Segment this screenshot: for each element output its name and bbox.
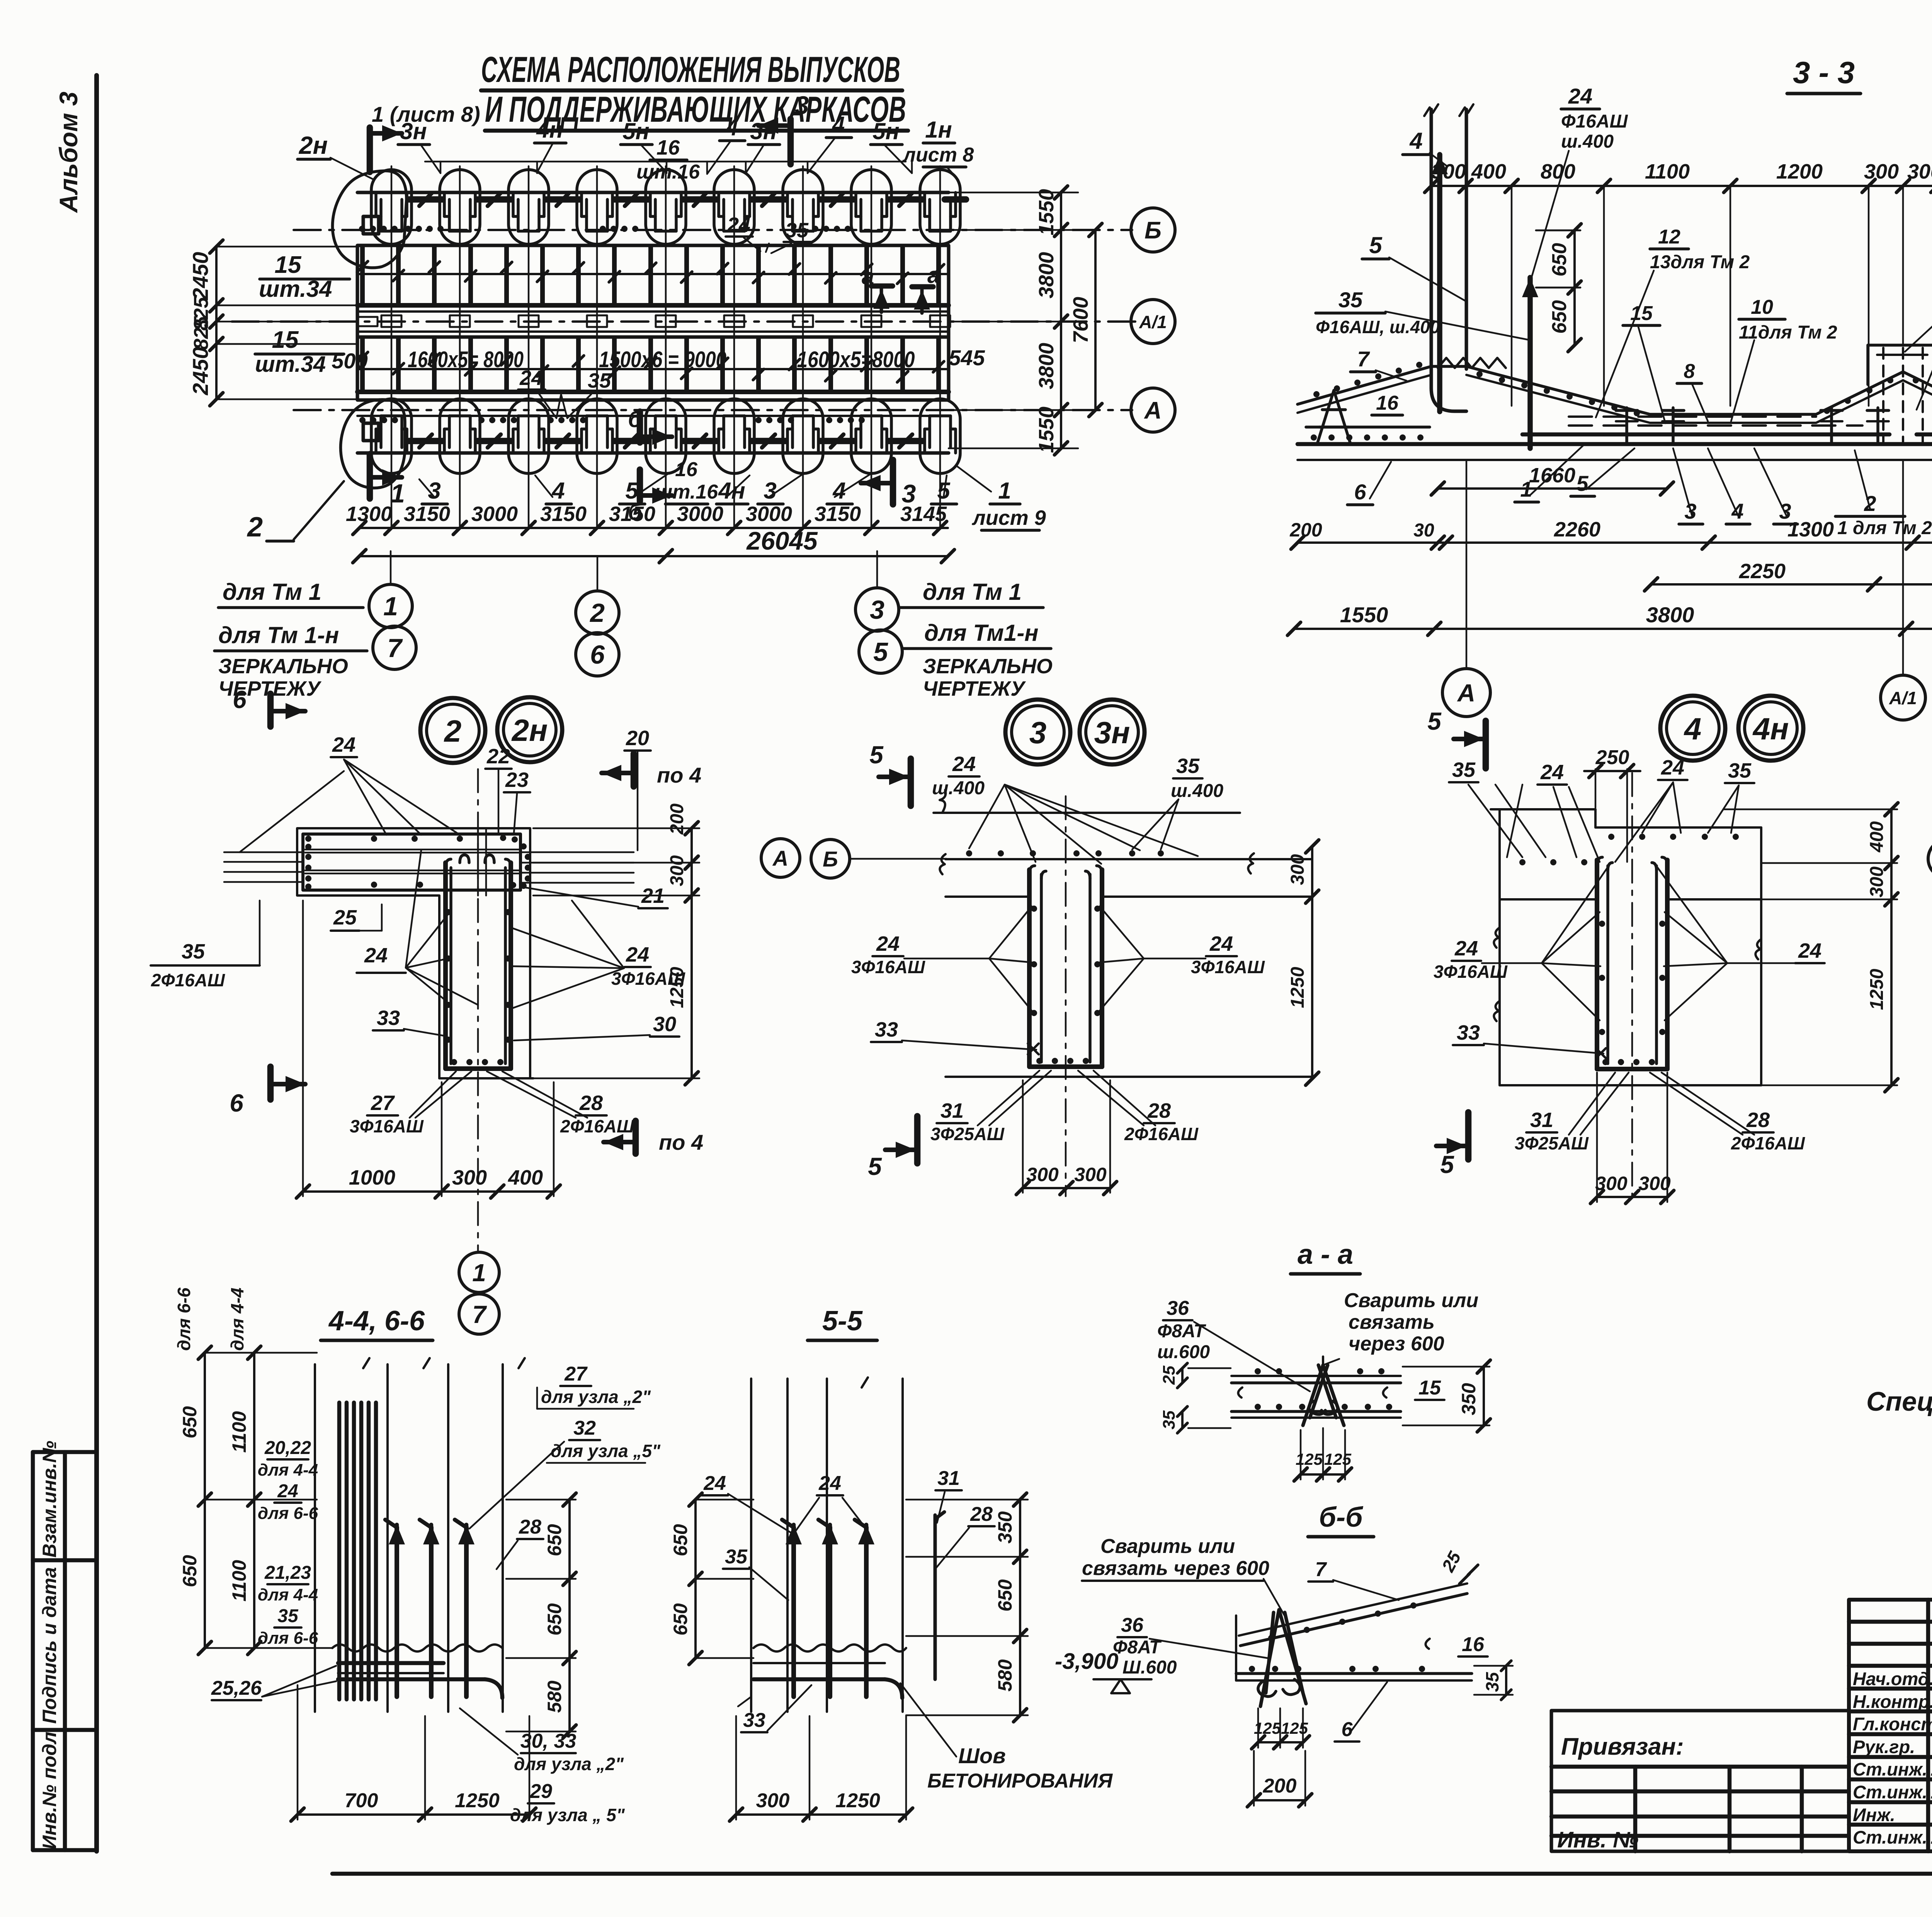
svg-text:Ф16АШ: Ф16АШ	[1561, 111, 1628, 132]
svg-text:250: 250	[1595, 746, 1629, 769]
svg-text:15: 15	[275, 252, 302, 278]
plan: lower band rebar verticals	[360, 338, 365, 391]
svg-text:3150: 3150	[540, 502, 587, 526]
svg-text:Б: Б	[1145, 217, 1162, 244]
svg-text:6: 6	[590, 640, 605, 669]
svg-text:24: 24	[1661, 756, 1684, 779]
plan: top capsules	[371, 170, 412, 244]
svg-text:ЧЕРТЕЖУ: ЧЕРТЕЖУ	[923, 677, 1026, 700]
section 3-3: rebar dots on top surface	[1313, 391, 1320, 397]
svg-text:31: 31	[1530, 1108, 1553, 1132]
svg-text:для Тм 1: для Тм 1	[923, 579, 1022, 605]
svg-text:28: 28	[970, 1503, 993, 1525]
svg-text:8: 8	[1684, 360, 1695, 383]
svg-text:35: 35	[1482, 1672, 1502, 1692]
svg-text:1600х5= 8000: 1600х5= 8000	[408, 347, 524, 372]
svg-text:4: 4	[551, 478, 565, 504]
svg-text:31: 31	[940, 1099, 964, 1122]
svg-text:3Ф16АШ: 3Ф16АШ	[1434, 962, 1508, 982]
svg-text:5: 5	[1369, 232, 1383, 258]
section 4: title circles	[1660, 696, 1725, 761]
svg-text:а: а	[862, 264, 874, 289]
section 2: title circles	[420, 698, 485, 763]
section 4: concrete outline	[1491, 808, 1595, 810]
svg-text:5-5: 5-5	[822, 1306, 863, 1336]
svg-text:3: 3	[795, 91, 809, 119]
svg-text:3000: 3000	[471, 502, 518, 526]
svg-text:для 4-4: для 4-4	[227, 1288, 247, 1351]
svg-text:1: 1	[998, 478, 1011, 504]
svg-text:3150: 3150	[815, 502, 861, 526]
svg-text:3Ф16АШ: 3Ф16АШ	[611, 969, 685, 989]
svg-text:6: 6	[230, 1089, 243, 1117]
svg-text:Ст.инж.: Ст.инж.	[1853, 1827, 1927, 1847]
svg-text:20: 20	[626, 727, 649, 750]
svg-text:16: 16	[1462, 1633, 1485, 1656]
svg-text:350: 350	[994, 1511, 1016, 1544]
detail bb: 125 dims	[1258, 1741, 1303, 1743]
svg-text:35: 35	[1160, 1410, 1179, 1429]
section 3-3: lower dim rows	[1438, 487, 1667, 490]
section 3-3: axis drop lines	[1466, 460, 1468, 667]
svg-text:35: 35	[785, 219, 809, 242]
svg-text:300: 300	[1864, 160, 1899, 183]
svg-text:3150: 3150	[404, 502, 450, 526]
svg-text:шт.16: шт.16	[655, 481, 718, 503]
svg-text:3 - 3: 3 - 3	[1793, 55, 1855, 90]
svg-text:7: 7	[1357, 347, 1370, 371]
section 2: flange cage	[303, 834, 520, 890]
section 2: web cage	[443, 863, 448, 1069]
svg-text:16: 16	[1376, 392, 1399, 414]
svg-text:22: 22	[486, 745, 510, 768]
svg-text:шт.16: шт.16	[636, 161, 700, 183]
svg-text:6: 6	[233, 686, 247, 713]
plan: left dim chain	[216, 246, 357, 248]
svg-text:ш.400: ш.400	[932, 778, 985, 798]
svg-text:для 6-6: для 6-6	[258, 1504, 318, 1523]
section 3-3: 650 dims left	[1573, 230, 1576, 345]
svg-text:6: 6	[1354, 480, 1366, 504]
svg-text:7600: 7600	[1069, 297, 1092, 343]
section 4: 250 dim	[1584, 770, 1640, 772]
svg-text:24: 24	[1454, 937, 1478, 960]
svg-text:ш.600: ш.600	[1157, 1342, 1210, 1362]
svg-text:Инв.№ подл.: Инв.№ подл.	[39, 1726, 60, 1849]
svg-text:2250: 2250	[1739, 560, 1786, 583]
svg-text:1250: 1250	[1287, 967, 1308, 1008]
section 3: 5 flags	[908, 759, 914, 806]
plan: axis circles	[1131, 208, 1175, 252]
section 2: flange dots right cluster	[500, 835, 506, 841]
plan: top strip channels	[374, 192, 378, 216]
svg-text:15: 15	[272, 327, 299, 353]
detail aa: left small dims	[1181, 1368, 1184, 1383]
svg-text:ЗЕРКАЛЬНО: ЗЕРКАЛЬНО	[923, 655, 1053, 678]
svg-text:Инж.: Инж.	[1853, 1805, 1895, 1825]
detail aa: A-frame tie	[1303, 1365, 1344, 1425]
svg-text:3: 3	[1029, 715, 1047, 750]
section 44-66: hooked bars 24	[395, 1527, 399, 1697]
titleblock: attach table	[1551, 1711, 1849, 1851]
plan: bottom strip channels	[374, 429, 378, 453]
svg-text:33: 33	[875, 1018, 898, 1041]
svg-text:2450: 2450	[188, 252, 213, 301]
svg-text:3800: 3800	[1035, 343, 1058, 389]
section 55: verticals	[750, 1379, 752, 1712]
svg-text:24: 24	[1568, 84, 1592, 108]
svg-text:35: 35	[1452, 758, 1476, 781]
svg-text:650: 650	[1548, 300, 1571, 334]
svg-text:35: 35	[1176, 754, 1200, 778]
svg-text:Спецификацию смотрите на лист: Спецификацию смотрите на листах 19,22.	[1866, 1386, 1932, 1416]
svg-text:3800: 3800	[1035, 252, 1058, 298]
plan: band lines	[357, 273, 949, 275]
section 44-66: bottom dim	[298, 1813, 529, 1816]
svg-text:для 6-6: для 6-6	[258, 1629, 318, 1648]
svg-text:300: 300	[1431, 160, 1466, 183]
svg-text:125: 125	[1296, 1450, 1323, 1468]
section 3-3: bottom bars left span	[1522, 432, 1889, 437]
section 3: slab lines	[934, 812, 1240, 814]
bottom sheet edge line	[332, 1872, 1932, 1876]
section 55: left dims	[694, 1500, 697, 1658]
svg-text:800: 800	[1541, 160, 1575, 183]
svg-text:650: 650	[544, 1603, 565, 1636]
svg-text:35: 35	[277, 1606, 299, 1626]
svg-text:2Ф16АШ: 2Ф16АШ	[1731, 1133, 1805, 1153]
svg-text:1550: 1550	[1340, 603, 1388, 627]
svg-text:24: 24	[332, 733, 355, 756]
svg-text:а - а: а - а	[1298, 1239, 1353, 1270]
svg-text:2Ф16АШ: 2Ф16АШ	[1124, 1124, 1199, 1144]
svg-text:30: 30	[1413, 520, 1434, 541]
svg-text:25: 25	[1160, 1365, 1179, 1385]
svg-text:3Ф16АШ: 3Ф16АШ	[851, 957, 925, 977]
section 55: hooked bars 24	[791, 1527, 796, 1697]
svg-text:для 4-4: для 4-4	[258, 1585, 318, 1604]
section 3-3: stirrup groups	[1625, 408, 1628, 443]
svg-text:-3,900: -3,900	[1055, 1649, 1118, 1674]
svg-text:4: 4	[1684, 712, 1702, 746]
svg-text:Подпись и дата: Подпись и дата	[39, 1567, 60, 1724]
svg-text:350: 350	[1458, 1383, 1480, 1415]
svg-text:33: 33	[1457, 1021, 1480, 1044]
svg-text:24: 24	[876, 932, 900, 955]
svg-text:400: 400	[508, 1166, 543, 1189]
svg-text:2450: 2450	[188, 347, 213, 396]
svg-text:3Ф16АШ: 3Ф16АШ	[350, 1116, 424, 1136]
svg-text:2260: 2260	[1554, 518, 1600, 541]
svg-text:24: 24	[1798, 939, 1821, 962]
svg-text:27: 27	[564, 1363, 588, 1385]
plan: axis A/1 centerline	[232, 320, 1136, 323]
svg-text:лист 9: лист 9	[971, 506, 1046, 529]
svg-text:24: 24	[277, 1481, 298, 1502]
svg-text:24: 24	[1209, 932, 1233, 955]
svg-text:А: А	[1144, 397, 1162, 424]
section 3: web axis	[1065, 796, 1067, 1196]
svg-text:3н: 3н	[1094, 715, 1130, 750]
section 3-3: slab bottom line	[1298, 442, 1932, 446]
svg-text:Альбом 3: Альбом 3	[54, 92, 83, 213]
svg-text:580: 580	[544, 1680, 565, 1713]
svg-text:30: 30	[653, 1013, 676, 1036]
svg-text:Гл.констр.: Гл.констр.	[1853, 1714, 1932, 1734]
section 3: dots	[966, 850, 972, 856]
section 55: wavy joint	[753, 1645, 906, 1651]
sheet frame left border line	[94, 75, 99, 1851]
svg-text:2Ф16АШ: 2Ф16АШ	[151, 970, 225, 990]
svg-text:для Тм 1: для Тм 1	[223, 579, 321, 605]
svg-text:25: 25	[1437, 1548, 1465, 1575]
svg-text:Нач.отд.: Нач.отд.	[1853, 1668, 1932, 1689]
svg-text:5: 5	[869, 741, 884, 769]
section 4: dots	[1519, 859, 1526, 865]
section 3-3: bottom rebar lines left footing	[1306, 426, 1430, 429]
svg-text:Рук.гр.: Рук.гр.	[1853, 1737, 1915, 1757]
svg-text:25: 25	[333, 906, 357, 929]
svg-text:по 4: по 4	[657, 763, 701, 787]
svg-text:24: 24	[364, 944, 388, 967]
plan: bottom dim chain	[359, 527, 948, 529]
svg-text:Ф16АШ, ш.400: Ф16АШ, ш.400	[1316, 317, 1440, 337]
section 3-3: center beam stub	[1868, 344, 1932, 347]
svg-text:125: 125	[1324, 1450, 1352, 1468]
svg-text:4: 4	[725, 115, 738, 140]
svg-text:300: 300	[1638, 1173, 1671, 1194]
plan: 2 blob bottom-left	[341, 400, 405, 488]
section 4: bottom dims	[1597, 1196, 1667, 1198]
svg-text:5: 5	[868, 1153, 882, 1180]
section 2: axis circles below	[459, 1252, 499, 1292]
section 55: bottom dim	[736, 1813, 906, 1816]
svg-text:28: 28	[1746, 1108, 1770, 1132]
svg-text:1100: 1100	[1645, 160, 1690, 183]
svg-text:20,22: 20,22	[264, 1438, 311, 1458]
svg-text:3000: 3000	[677, 502, 723, 526]
section 2: flange dots left column	[305, 836, 311, 842]
svg-text:29: 29	[529, 1780, 552, 1803]
section 3: right dims	[1311, 846, 1313, 1079]
svg-text:б-б: б-б	[1319, 1502, 1364, 1533]
plan: bottom capsules	[371, 399, 412, 473]
svg-text:300: 300	[1595, 1173, 1628, 1194]
svg-text:связать через 600: связать через 600	[1082, 1557, 1269, 1580]
svg-text:650: 650	[670, 1524, 691, 1556]
svg-text:24: 24	[703, 1472, 726, 1495]
svg-text:13для Тм 2: 13для Тм 2	[1650, 252, 1750, 272]
svg-text:для узла „5": для узла „5"	[551, 1441, 661, 1461]
svg-text:для узла „2": для узла „2"	[541, 1387, 651, 1407]
svg-text:Инв. №: Инв. №	[1557, 1827, 1638, 1852]
section 3: A/B circles	[761, 839, 800, 877]
svg-text:300: 300	[1867, 867, 1887, 897]
section 2: flange leader lines left	[224, 851, 303, 853]
svg-text:16: 16	[675, 458, 698, 481]
svg-text:5: 5	[1427, 707, 1442, 735]
svg-text:3Ф16АШ: 3Ф16АШ	[1191, 957, 1265, 977]
plan: bottom labels	[367, 454, 373, 499]
svg-text:2: 2	[444, 714, 462, 748]
svg-text:2: 2	[589, 598, 605, 628]
svg-text:200: 200	[1263, 1775, 1297, 1797]
svg-text:35: 35	[1728, 759, 1752, 782]
svg-text:650: 650	[1548, 243, 1571, 277]
titleblock: names table	[1849, 1600, 1932, 1851]
svg-text:500: 500	[332, 349, 367, 373]
svg-text:по 4: по 4	[659, 1130, 703, 1154]
svg-text:Взам.инв.№: Взам.инв.№	[39, 1441, 60, 1558]
svg-text:24: 24	[1540, 761, 1564, 784]
svg-text:12: 12	[1658, 226, 1680, 248]
svg-text:4н: 4н	[718, 478, 745, 504]
svg-text:1: 1	[390, 479, 405, 508]
svg-text:лист 8: лист 8	[902, 144, 974, 166]
section 3-3: ground line	[1298, 459, 1932, 461]
section 2: flange leader lines right	[520, 851, 634, 853]
detail bb: 200 dim	[1254, 1799, 1305, 1801]
svg-text:650: 650	[994, 1579, 1016, 1612]
svg-text:5: 5	[1440, 1151, 1454, 1178]
section 3-3: axis circles	[1442, 669, 1490, 717]
svg-text:б: б	[628, 406, 643, 432]
detail bb: dots on slope	[1268, 1635, 1274, 1641]
left stamp column	[31, 1452, 35, 1850]
section 44-66: wall verticals	[314, 1364, 316, 1712]
plan: axis A centerline	[294, 409, 1132, 411]
svg-text:для 4-4: для 4-4	[258, 1461, 318, 1479]
svg-text:300: 300	[756, 1789, 790, 1812]
svg-text:Б: Б	[823, 847, 838, 871]
svg-text:200: 200	[667, 804, 687, 835]
section 4: web axis	[1631, 773, 1633, 1206]
section 5: A/B circles	[1928, 839, 1932, 878]
svg-text:3150: 3150	[609, 502, 655, 526]
svg-text:3145: 3145	[900, 502, 947, 526]
svg-text:ЗЕРКАЛЬНО: ЗЕРКАЛЬНО	[218, 655, 348, 678]
section 3-3: bottom bars right span	[1917, 432, 1932, 437]
section 3-3: top surface profile	[1298, 366, 1903, 414]
svg-text:400: 400	[1471, 160, 1506, 183]
svg-text:для 6-6: для 6-6	[174, 1287, 194, 1351]
svg-text:4: 4	[1409, 128, 1422, 154]
svg-text:3800: 3800	[1646, 603, 1694, 627]
svg-text:ш.400: ш.400	[1561, 131, 1614, 152]
svg-text:1550: 1550	[1035, 189, 1058, 235]
section 2: flange bar lines	[305, 849, 520, 851]
svg-text:для Тм1-н: для Тм1-н	[924, 620, 1039, 646]
plan: slab outline	[357, 245, 949, 400]
svg-text:Н.контр.: Н.контр.	[1853, 1691, 1932, 1712]
svg-text:БЕТОНИРОВАНИЯ: БЕТОНИРОВАНИЯ	[927, 1770, 1113, 1792]
svg-text:400: 400	[1867, 821, 1887, 853]
section 44-66: right dim chain	[568, 1500, 571, 1731]
svg-text:Сварить или: Сварить или	[1344, 1289, 1478, 1312]
svg-text:3Ф25АШ: 3Ф25АШ	[930, 1124, 1005, 1144]
detail aa: dots	[1255, 1368, 1261, 1374]
svg-text:для узла „2": для узла „2"	[514, 1754, 624, 1774]
svg-text:650: 650	[670, 1603, 691, 1636]
svg-text:300: 300	[452, 1166, 487, 1189]
svg-text:Шов: Шов	[958, 1743, 1006, 1768]
svg-text:26045: 26045	[746, 526, 818, 555]
section 3: bottom dims	[1023, 1187, 1110, 1189]
svg-text:200: 200	[1289, 519, 1322, 541]
svg-text:650: 650	[544, 1524, 565, 1556]
svg-text:2: 2	[247, 512, 263, 543]
svg-text:связать: связать	[1349, 1311, 1435, 1333]
svg-text:24: 24	[818, 1472, 841, 1495]
svg-text:5: 5	[1576, 471, 1588, 495]
svg-text:650: 650	[179, 1406, 201, 1439]
section 2: web axis	[477, 769, 479, 1252]
svg-text:23: 23	[505, 768, 529, 792]
plan: axis-band plates	[381, 315, 401, 327]
svg-text:1: 1	[383, 592, 398, 621]
section 44-66: wavy joint	[332, 1645, 502, 1651]
plan: top strip anchor bars	[409, 196, 442, 203]
svg-text:28: 28	[1147, 1099, 1171, 1122]
svg-text:1500х6 = 9000: 1500х6 = 9000	[599, 347, 726, 372]
svg-text:24: 24	[626, 943, 649, 966]
svg-text:для Тм 1-н: для Тм 1-н	[218, 622, 339, 648]
plan: top strip dots	[359, 226, 365, 232]
plan: blob corner hooks	[363, 216, 379, 441]
svg-text:А/1: А/1	[1139, 312, 1167, 332]
svg-text:Ш.600: Ш.600	[1122, 1657, 1177, 1678]
svg-text:А: А	[772, 846, 788, 870]
section 44-66: dense bar group	[337, 1403, 342, 1699]
plan: upper band rebar verticals	[360, 247, 365, 305]
svg-text:300: 300	[1026, 1164, 1059, 1185]
section 3-3: wall break marks	[1424, 104, 1438, 116]
section 2: flange dots top	[371, 836, 377, 842]
section 2: concrete outline	[297, 828, 530, 1078]
section 3: web cage	[1027, 870, 1032, 1067]
svg-text:4-4, 6-6: 4-4, 6-6	[328, 1306, 425, 1336]
svg-text:через 600: через 600	[1349, 1333, 1444, 1355]
section 3-3: end support triangles	[1318, 390, 1350, 443]
detail bb: sloped slab	[1239, 1583, 1467, 1636]
svg-text:Ст.инж.: Ст.инж.	[1853, 1782, 1927, 1802]
svg-text:35: 35	[588, 369, 611, 392]
svg-text:7: 7	[387, 633, 403, 663]
svg-text:25,26: 25,26	[211, 1677, 262, 1699]
section 3-3: pour joint zigzags	[1438, 358, 1506, 368]
svg-text:10: 10	[1751, 296, 1773, 318]
detail aa: slab band	[1231, 1375, 1401, 1377]
svg-text:24: 24	[952, 752, 976, 776]
svg-text:1н: 1н	[925, 117, 952, 143]
svg-text:700: 700	[345, 1789, 378, 1812]
svg-text:1600х5=8000: 1600х5=8000	[797, 347, 915, 372]
plan: axis B centerline	[294, 229, 1132, 231]
section 3-3: wall rebars with arrows	[1437, 155, 1442, 412]
svg-text:5: 5	[873, 637, 888, 667]
svg-text:7: 7	[1315, 1558, 1327, 1581]
svg-text:А/1: А/1	[1889, 688, 1917, 708]
svg-text:2н: 2н	[299, 131, 328, 159]
svg-text:825: 825	[190, 316, 213, 350]
svg-text:Привязан:: Привязан:	[1561, 1733, 1684, 1760]
section 3-3: top dim chain	[1431, 185, 1932, 187]
svg-text:4н: 4н	[1752, 712, 1789, 746]
svg-text:7: 7	[472, 1301, 487, 1328]
svg-text:33: 33	[377, 1006, 400, 1030]
plan: right dims	[949, 192, 1078, 194]
section 55: right dim chain	[1019, 1500, 1021, 1715]
